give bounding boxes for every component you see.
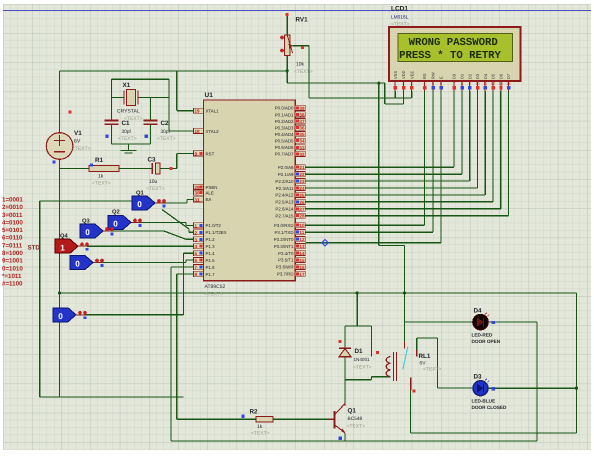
svg-text:4: 4 bbox=[195, 244, 198, 249]
svg-text:0=1010: 0=1010 bbox=[2, 265, 23, 272]
logic state 6 bbox=[53, 308, 76, 322]
svg-text:1=0001: 1=0001 bbox=[2, 197, 23, 204]
junction VDD riser bbox=[377, 82, 380, 85]
wire RST net bbox=[160, 154, 194, 169]
wire Q1 state to EA bbox=[155, 199, 194, 203]
svg-text:EA: EA bbox=[206, 197, 212, 202]
svg-text:30pf: 30pf bbox=[122, 129, 132, 135]
svg-text:Q3: Q3 bbox=[82, 218, 91, 225]
svg-text:D4: D4 bbox=[474, 308, 483, 315]
svg-text:P0.1/AD1: P0.1/AD1 bbox=[275, 112, 294, 117]
markers Q1 state bbox=[157, 199, 161, 203]
svg-text:5=0101: 5=0101 bbox=[2, 227, 23, 234]
marker RV1 b bbox=[280, 49, 284, 53]
svg-text:<TEXT>: <TEXT> bbox=[251, 431, 270, 437]
svg-text:11: 11 bbox=[299, 230, 304, 235]
svg-text:E: E bbox=[439, 76, 444, 79]
svg-text:7: 7 bbox=[453, 82, 455, 86]
svg-text:28: 28 bbox=[299, 214, 305, 219]
svg-text:XTAL1: XTAL1 bbox=[206, 109, 220, 114]
svg-text:D1: D1 bbox=[460, 73, 465, 79]
svg-text:RV1: RV1 bbox=[296, 17, 309, 24]
svg-text:1N4001: 1N4001 bbox=[354, 357, 371, 362]
svg-text:9=1001: 9=1001 bbox=[2, 258, 23, 265]
svg-text:6: 6 bbox=[195, 258, 198, 263]
svg-text:C3: C3 bbox=[148, 157, 157, 164]
svg-text:4: 4 bbox=[424, 82, 426, 86]
wire state5 to P1.5 bbox=[93, 260, 194, 262]
wire XTAL2 net bbox=[169, 130, 194, 132]
wire relay control riser bbox=[379, 83, 405, 341]
svg-text:13: 13 bbox=[499, 82, 503, 86]
svg-text:21: 21 bbox=[299, 165, 305, 170]
crystal X1 bbox=[124, 90, 138, 106]
svg-text:Q1: Q1 bbox=[136, 190, 145, 197]
svg-text:1k: 1k bbox=[98, 174, 104, 180]
svg-text:C1: C1 bbox=[122, 120, 131, 127]
svg-text:0: 0 bbox=[58, 312, 63, 321]
svg-text:1: 1 bbox=[60, 243, 65, 252]
svg-text:0: 0 bbox=[137, 200, 142, 209]
capacitor C2 bbox=[144, 121, 158, 125]
svg-text:R1: R1 bbox=[95, 157, 104, 164]
svg-text:RST: RST bbox=[206, 151, 215, 156]
markers state5 bbox=[95, 259, 99, 263]
capacitor C3 bbox=[152, 163, 160, 174]
logic state Q3 bbox=[80, 224, 103, 238]
keypad code table bbox=[2, 197, 23, 288]
wire VDD rail bbox=[287, 82, 385, 84]
svg-text:CRYSTAL: CRYSTAL bbox=[117, 109, 140, 115]
svg-text:5: 5 bbox=[195, 251, 198, 256]
svg-text:3=0011: 3=0011 bbox=[2, 212, 23, 219]
svg-text:DOOR CLOSED: DOOR CLOSED bbox=[472, 405, 508, 410]
svg-text:P1.3: P1.3 bbox=[206, 244, 216, 249]
svg-text:30: 30 bbox=[195, 191, 201, 196]
wire P1.7 to R2 bbox=[177, 274, 256, 419]
svg-text:4=0100: 4=0100 bbox=[2, 219, 23, 226]
svg-text:9: 9 bbox=[195, 152, 198, 157]
svg-text:C2: C2 bbox=[161, 120, 170, 127]
wire D1 anode / Q1 collector bbox=[344, 357, 346, 403]
svg-text:27: 27 bbox=[299, 207, 305, 212]
svg-text:Q2: Q2 bbox=[112, 209, 120, 216]
svg-text:8: 8 bbox=[461, 82, 463, 86]
svg-text:0: 0 bbox=[75, 260, 80, 269]
node probe on E net bbox=[322, 240, 329, 247]
svg-text:LCD1: LCD1 bbox=[391, 6, 408, 13]
svg-text:8=1000: 8=1000 bbox=[2, 250, 23, 257]
svg-text:25: 25 bbox=[299, 193, 305, 198]
wire left loop horizontal bbox=[40, 200, 132, 202]
markers state6 bbox=[78, 311, 82, 315]
svg-text:D0: D0 bbox=[452, 73, 457, 79]
junction riser on bus bbox=[403, 291, 406, 294]
svg-text:1: 1 bbox=[394, 82, 396, 86]
svg-text:*=1011: *=1011 bbox=[2, 273, 22, 280]
svg-text:D7: D7 bbox=[506, 73, 511, 79]
svg-text:<TEXT>: <TEXT> bbox=[205, 292, 224, 298]
svg-text:P3.3/INT1: P3.3/INT1 bbox=[274, 244, 294, 249]
svg-text:AT89C52: AT89C52 bbox=[205, 284, 226, 290]
wire C1 bottom lead bbox=[111, 124, 113, 144]
wire R2 to Q1 base bbox=[273, 418, 328, 420]
svg-text:2: 2 bbox=[402, 82, 404, 86]
battery V1 bbox=[46, 133, 73, 160]
svg-text:P0.5/AD5: P0.5/AD5 bbox=[275, 139, 294, 144]
wire lower-left horizontal bbox=[40, 396, 184, 398]
svg-text:1: 1 bbox=[195, 223, 198, 228]
wire state6 to P1.4 bbox=[76, 253, 194, 315]
marker RV1 a bbox=[280, 36, 284, 40]
svg-text:P0.4/AD4: P0.4/AD4 bbox=[275, 132, 294, 137]
wire bus to D1 branch bbox=[345, 293, 357, 326]
svg-text:X1: X1 bbox=[123, 82, 131, 89]
svg-text:P3.7/RD: P3.7/RD bbox=[277, 272, 294, 277]
svg-text:D3: D3 bbox=[474, 374, 483, 381]
marker RV1 wiper bbox=[301, 46, 304, 49]
wire RV1 top lead bbox=[286, 14, 288, 36]
wire VCC rail V1-RV1 bbox=[60, 71, 288, 133]
svg-text:P2.5/A13: P2.5/A13 bbox=[275, 200, 294, 205]
wire coil top lead bbox=[345, 326, 371, 356]
svg-text:VSS: VSS bbox=[393, 71, 398, 79]
svg-text:D2: D2 bbox=[467, 73, 472, 79]
ground bbox=[121, 144, 137, 153]
marker V1 minus bbox=[52, 160, 55, 163]
microcontroller U1 (AT89C52) bbox=[204, 100, 296, 281]
junction RV1 bottom bbox=[286, 69, 289, 72]
svg-text:D5: D5 bbox=[491, 73, 496, 79]
svg-text:15: 15 bbox=[299, 258, 305, 263]
marker coil top bbox=[376, 351, 379, 354]
markers Q3 state bbox=[105, 227, 109, 231]
wire Q2 state to P1.0 bbox=[131, 222, 194, 225]
svg-text:14: 14 bbox=[506, 82, 510, 86]
wire coil bottom lead bbox=[345, 377, 390, 380]
marker Q1 emitter bbox=[339, 437, 342, 440]
svg-text:12: 12 bbox=[299, 237, 305, 242]
junction D3 outer bbox=[575, 387, 578, 390]
svg-text:5: 5 bbox=[432, 82, 434, 86]
svg-text:P3.6/WR: P3.6/WR bbox=[276, 265, 294, 270]
svg-text:D1: D1 bbox=[355, 348, 364, 355]
svg-text:PRESS * TO RETRY: PRESS * TO RETRY bbox=[399, 50, 501, 62]
marker D4 bbox=[492, 321, 495, 324]
svg-text:10k: 10k bbox=[296, 62, 305, 68]
svg-text:P0.7/AD7: P0.7/AD7 bbox=[275, 152, 294, 157]
svg-text:P1.0/T2: P1.0/T2 bbox=[206, 223, 222, 228]
svg-text:<TEXT>: <TEXT> bbox=[294, 69, 313, 75]
svg-text:17: 17 bbox=[299, 272, 305, 277]
wire relay common to D4 bbox=[405, 321, 474, 323]
svg-text:<TEXT>: <TEXT> bbox=[347, 424, 366, 430]
svg-text:D4: D4 bbox=[483, 73, 488, 79]
svg-text:3: 3 bbox=[411, 82, 413, 86]
svg-text:P2.0/A8: P2.0/A8 bbox=[278, 165, 294, 170]
svg-text:P3.1/TXD: P3.1/TXD bbox=[274, 230, 293, 235]
wire R1 to C3 bbox=[119, 168, 152, 170]
svg-text:9: 9 bbox=[469, 82, 471, 86]
svg-text:33: 33 bbox=[299, 145, 305, 150]
wire RV1 wiper net bbox=[293, 46, 412, 98]
logic state Q2 bbox=[108, 215, 131, 229]
marker relay NO bbox=[412, 390, 415, 393]
svg-text:7: 7 bbox=[195, 265, 198, 270]
svg-text:U1: U1 bbox=[205, 92, 214, 99]
markers STD state bbox=[80, 242, 84, 246]
svg-text:3: 3 bbox=[195, 237, 198, 242]
wire crystal loop top bbox=[112, 79, 170, 131]
potentiometer RV1 bbox=[285, 35, 293, 55]
wire C2 bottom lead bbox=[150, 124, 152, 144]
svg-text:31: 31 bbox=[195, 197, 201, 202]
svg-text:10: 10 bbox=[299, 223, 305, 228]
svg-text:ALE: ALE bbox=[206, 190, 214, 195]
relay RL1 switch bbox=[403, 341, 417, 390]
svg-text:VDD: VDD bbox=[401, 70, 406, 79]
relay RL1 coil bbox=[386, 352, 396, 381]
svg-text:22: 22 bbox=[299, 172, 305, 177]
svg-text:#=1100: #=1100 bbox=[2, 281, 23, 288]
marker R2 left bbox=[241, 415, 244, 418]
svg-text:0: 0 bbox=[113, 220, 118, 229]
capacitor C1 bbox=[105, 121, 119, 125]
svg-text:P0.0/AD0: P0.0/AD0 bbox=[275, 106, 294, 111]
svg-text:2=0010: 2=0010 bbox=[2, 204, 23, 211]
svg-text:D3: D3 bbox=[475, 73, 480, 79]
svg-text:P0.6/AD6: P0.6/AD6 bbox=[275, 145, 294, 150]
wire relay NO to outer bus bbox=[410, 390, 412, 433]
sheet border line bbox=[3, 10, 591, 12]
wire ground rail bbox=[112, 143, 151, 145]
display LCD1 body (LM016L) bbox=[389, 27, 521, 81]
svg-text:P2.4/A12: P2.4/A12 bbox=[275, 193, 294, 198]
svg-text:12: 12 bbox=[491, 82, 495, 86]
svg-text:P2.7/A15: P2.7/A15 bbox=[275, 214, 294, 219]
svg-text:<TEXT>: <TEXT> bbox=[423, 367, 442, 373]
wire D3 cathode to outer bbox=[488, 387, 577, 389]
marker C2 bbox=[145, 135, 148, 138]
wire LCD VEE lead bbox=[411, 91, 413, 98]
U1 right pins bbox=[274, 105, 306, 276]
svg-text:DOOR OPEN: DOOR OPEN bbox=[472, 339, 501, 344]
svg-text:10u: 10u bbox=[149, 179, 158, 185]
svg-text:LED-BLUE: LED-BLUE bbox=[472, 399, 496, 404]
wire RV1 bottom lead bbox=[286, 55, 288, 83]
wire relay NC loop to D3 bbox=[417, 338, 474, 388]
wire LCD data bus D0-D7 to P2 bbox=[305, 91, 508, 216]
markers Q2 state bbox=[133, 219, 137, 223]
marker C3 right bbox=[169, 167, 172, 170]
marker C1 bbox=[105, 135, 108, 138]
svg-text:11: 11 bbox=[483, 82, 487, 86]
svg-text:P0.2/AD2: P0.2/AD2 bbox=[275, 119, 294, 124]
svg-text:P1.6: P1.6 bbox=[206, 265, 216, 270]
svg-text:0: 0 bbox=[85, 228, 90, 237]
transistor Q1 bbox=[328, 403, 345, 441]
wire D4 cathode to bus bbox=[488, 322, 537, 441]
svg-text:LED-RED: LED-RED bbox=[472, 333, 493, 338]
svg-text:P1.1/T2EX: P1.1/T2EX bbox=[206, 230, 227, 235]
U1 left pins bbox=[194, 108, 227, 277]
wire Q3 state to P1.2 bbox=[103, 231, 194, 239]
marker RV1 top bbox=[286, 13, 289, 16]
svg-text:37: 37 bbox=[299, 119, 305, 124]
LCD pins bbox=[393, 70, 511, 91]
svg-text:1k: 1k bbox=[257, 424, 263, 430]
LED D4 bbox=[473, 313, 490, 330]
wire LCD RS net bbox=[305, 91, 424, 225]
svg-text:6V: 6V bbox=[74, 139, 81, 145]
logic state 5 bbox=[70, 256, 93, 270]
svg-text:24: 24 bbox=[299, 186, 305, 191]
svg-text:P3.4/T0: P3.4/T0 bbox=[278, 251, 294, 256]
svg-text:P3.5/T1: P3.5/T1 bbox=[278, 258, 294, 263]
svg-text:26: 26 bbox=[299, 200, 305, 205]
svg-text:10: 10 bbox=[475, 82, 479, 86]
svg-text:P0.3/AD3: P0.3/AD3 bbox=[275, 125, 294, 130]
svg-text:16: 16 bbox=[299, 265, 305, 270]
svg-text:14: 14 bbox=[299, 251, 305, 256]
svg-text:P2.2/A10: P2.2/A10 bbox=[275, 179, 294, 184]
wire XTAL1 net bbox=[177, 71, 194, 111]
svg-text:P2.6/A14: P2.6/A14 bbox=[275, 207, 294, 212]
svg-text:P2.3/A11: P2.3/A11 bbox=[276, 186, 294, 191]
svg-text:35: 35 bbox=[299, 132, 305, 137]
svg-text:BC548: BC548 bbox=[348, 416, 363, 422]
svg-text:STD: STD bbox=[28, 245, 41, 252]
wire crystal right lead bbox=[138, 97, 169, 99]
svg-text:Q4: Q4 bbox=[60, 233, 69, 240]
svg-text:29: 29 bbox=[195, 185, 201, 190]
svg-text:6=0110: 6=0110 bbox=[2, 235, 23, 242]
svg-text:39: 39 bbox=[299, 106, 305, 111]
wire left loop vertical bbox=[39, 201, 41, 397]
wire main bus bbox=[60, 292, 577, 294]
svg-text:13: 13 bbox=[299, 244, 305, 249]
svg-text:P3.0/RXD: P3.0/RXD bbox=[274, 223, 294, 228]
wire V1 minus to R1 bbox=[60, 159, 89, 168]
svg-text:34: 34 bbox=[299, 139, 305, 144]
wire crystal left lead bbox=[112, 97, 125, 99]
wire P1.6 to bottom bus bbox=[171, 267, 194, 441]
wire STD state to P1.3 bbox=[78, 245, 194, 247]
svg-text:2: 2 bbox=[195, 230, 198, 235]
svg-text:32: 32 bbox=[299, 152, 305, 157]
logic state STD bbox=[55, 239, 78, 253]
svg-text:<TEXT>: <TEXT> bbox=[118, 136, 137, 142]
svg-text:19: 19 bbox=[195, 109, 201, 114]
wire bottom bus inner bbox=[171, 440, 537, 442]
svg-text:<TEXT>: <TEXT> bbox=[157, 136, 176, 142]
wire C2 top lead bbox=[150, 98, 152, 121]
svg-text:30pf: 30pf bbox=[161, 129, 171, 135]
svg-text:P2.1/A9: P2.1/A9 bbox=[278, 172, 294, 177]
svg-text:RW: RW bbox=[431, 72, 436, 79]
wire Q1 diagonal to P1.1 bbox=[162, 210, 194, 233]
svg-text:D6: D6 bbox=[498, 73, 503, 79]
LCD screen bbox=[398, 34, 513, 62]
svg-text:P1.2: P1.2 bbox=[206, 237, 216, 242]
svg-text:36: 36 bbox=[299, 126, 305, 131]
svg-text:<TEXT>: <TEXT> bbox=[353, 365, 372, 371]
logic state Q1 bbox=[132, 196, 155, 210]
svg-text:PSEN: PSEN bbox=[206, 185, 218, 190]
svg-text:P3.2/INT0: P3.2/INT0 bbox=[274, 237, 294, 242]
svg-text:RS: RS bbox=[422, 73, 427, 79]
LED D3 bbox=[473, 379, 489, 396]
svg-text:RL1: RL1 bbox=[419, 353, 431, 360]
marker D3 bbox=[492, 387, 495, 390]
resistor R1 bbox=[89, 165, 119, 171]
svg-text:38: 38 bbox=[299, 112, 305, 117]
svg-text:P1.4: P1.4 bbox=[206, 251, 216, 256]
svg-text:23: 23 bbox=[299, 179, 305, 184]
svg-text:VEE: VEE bbox=[409, 71, 414, 79]
svg-text:18: 18 bbox=[195, 129, 201, 134]
marker R1 left bbox=[90, 163, 93, 166]
wire V1 return vertical bbox=[59, 169, 61, 397]
wire LCD E net bbox=[305, 91, 441, 243]
svg-text:R2: R2 bbox=[250, 409, 259, 416]
wire D1 cathode lead bbox=[344, 326, 346, 348]
wire LCD RW net bbox=[305, 91, 433, 232]
svg-text:<TEXT>: <TEXT> bbox=[72, 146, 91, 152]
marker D1 top bbox=[339, 340, 342, 343]
diode D1 bbox=[339, 348, 351, 357]
svg-text:8: 8 bbox=[195, 272, 198, 277]
wire LCD VDD dip bbox=[385, 83, 404, 104]
svg-text:Q1: Q1 bbox=[348, 408, 357, 415]
svg-text:<TEXT>: <TEXT> bbox=[92, 181, 111, 187]
svg-text:7=0111: 7=0111 bbox=[2, 242, 23, 249]
svg-text:WRONG PASSWORD: WRONG PASSWORD bbox=[409, 37, 498, 49]
svg-text:6: 6 bbox=[440, 82, 442, 86]
junction main bus left bbox=[58, 291, 61, 294]
svg-text:<TEXT>: <TEXT> bbox=[146, 186, 165, 192]
svg-text:LM016L: LM016L bbox=[391, 15, 409, 21]
svg-text:XTAL2: XTAL2 bbox=[206, 129, 220, 134]
wire bottom bus outer bbox=[411, 293, 577, 433]
resistor R2 bbox=[256, 417, 273, 422]
svg-text:P1.7: P1.7 bbox=[206, 272, 216, 277]
marker V1 plus bbox=[68, 110, 71, 113]
wire LCD VSS lead bbox=[394, 91, 396, 98]
svg-text:V1: V1 bbox=[74, 130, 82, 137]
svg-text:P1.5: P1.5 bbox=[206, 258, 216, 263]
junction branch on bus bbox=[356, 291, 359, 294]
